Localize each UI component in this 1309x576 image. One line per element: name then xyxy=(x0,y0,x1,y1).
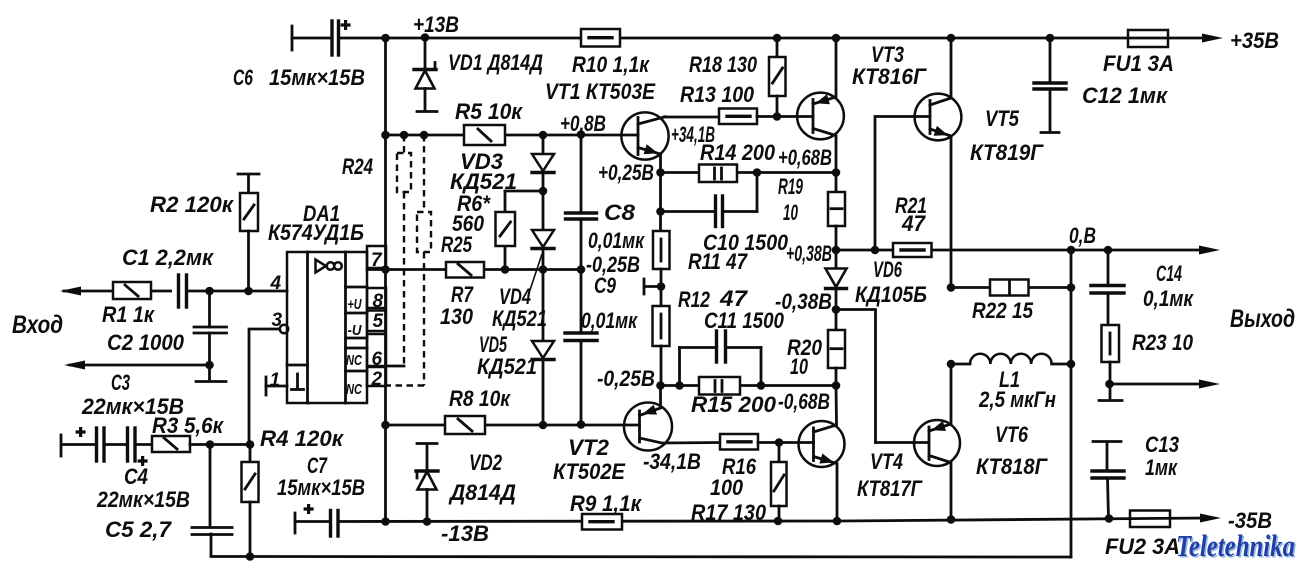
wire R8 row xyxy=(386,424,640,427)
svg-text:С14: С14 xyxy=(1156,261,1182,286)
node pin7 row x385 xyxy=(381,265,390,274)
svg-text:VD6: VD6 xyxy=(873,257,903,282)
resistor R18 xyxy=(769,38,786,117)
node -0.38V xyxy=(832,305,841,314)
node VT4 emitter rail xyxy=(833,517,842,526)
node R5 row C8 tap (+0.8V) xyxy=(577,130,586,139)
node C11 left xyxy=(675,381,684,390)
svg-text:-0,25В: -0,25В xyxy=(597,366,655,391)
svg-text:47: 47 xyxy=(901,211,927,236)
resistor R6 xyxy=(496,191,544,270)
node R20 bottom / VT4 collector xyxy=(832,381,841,390)
resistor R2 xyxy=(238,174,259,291)
resistor R5 xyxy=(464,125,505,145)
svg-text:С9: С9 xyxy=(594,273,617,298)
svg-text:VT1 КТ503Е: VT1 КТ503Е xyxy=(545,79,656,104)
svg-text:Д814Д: Д814Д xyxy=(448,480,516,505)
svg-text:10: 10 xyxy=(783,200,798,225)
node 0V row x1071 xyxy=(1067,246,1076,255)
transistor Q VT1 xyxy=(621,112,668,172)
svg-text:КД521: КД521 xyxy=(492,306,547,331)
node C6-rail junction xyxy=(381,34,390,43)
svg-text:R24: R24 xyxy=(342,154,373,179)
svg-text:С2 1000: С2 1000 xyxy=(107,330,185,355)
capacitor C8 xyxy=(566,213,597,219)
wire VD3-VD4-VD5 column xyxy=(542,135,545,425)
wire C8 to C9 xyxy=(580,219,583,333)
wire R16 to VT4 base xyxy=(758,441,814,444)
svg-text:FU1 3А: FU1 3А xyxy=(1103,51,1174,76)
capacitor C4 xyxy=(128,428,148,466)
svg-text:R25: R25 xyxy=(441,232,473,257)
capacitor C13 xyxy=(1092,442,1124,519)
svg-text:+0,38В: +0,38В xyxy=(786,241,832,266)
svg-text:22мк×15В: 22мк×15В xyxy=(96,487,190,512)
svg-text:+0,68В: +0,68В xyxy=(778,145,832,170)
svg-text:-34,1В: -34,1В xyxy=(643,449,701,474)
node R4 top xyxy=(246,440,255,449)
svg-text:R1 1к: R1 1к xyxy=(102,302,156,327)
svg-text:VT5: VT5 xyxy=(985,106,1020,131)
svg-text:R8 10к: R8 10к xyxy=(449,386,512,411)
wire R11 to junction xyxy=(660,269,663,306)
wire C7 lead xyxy=(295,520,330,523)
wire C3/C4/R3 row xyxy=(63,443,96,446)
svg-text:2: 2 xyxy=(371,369,383,390)
fuse FU2 xyxy=(1130,511,1170,528)
svg-text:КТ818Г: КТ818Г xyxy=(976,454,1048,479)
svg-text:15мк×15В: 15мк×15В xyxy=(269,65,365,90)
node pin7 row VD column xyxy=(539,265,548,274)
svg-text:+U: +U xyxy=(348,296,363,313)
svg-text:-0,38В: -0,38В xyxy=(775,289,832,314)
svg-text:VT6: VT6 xyxy=(995,422,1029,447)
svg-text:0,01мк: 0,01мк xyxy=(588,228,645,253)
svg-text:3: 3 xyxy=(272,310,283,331)
inductor L1 xyxy=(951,354,1071,364)
svg-text:+13В: +13В xyxy=(413,12,459,37)
diode VD4 label pointer xyxy=(528,254,542,296)
svg-text:-0,68В: -0,68В xyxy=(778,389,830,414)
resistor R19 xyxy=(828,173,845,251)
svg-text:С5 2,7: С5 2,7 xyxy=(105,517,173,542)
resistor R22 xyxy=(990,280,1029,296)
svg-text:К574УД1Б: К574УД1Б xyxy=(268,220,364,245)
wire output arrow top xyxy=(1199,246,1220,255)
diode VD4 xyxy=(532,230,554,249)
wire VT2 collector to R16 xyxy=(663,441,720,444)
capacitor C6 xyxy=(332,20,351,55)
svg-text:5: 5 xyxy=(373,311,384,332)
ground bar C2 bottom xyxy=(196,380,226,383)
node VT5 base at 0V row xyxy=(871,246,880,255)
op-amp DA1 pin1 ground symbol xyxy=(292,374,304,390)
node R5 row x385 xyxy=(381,131,390,140)
wire VT5 base xyxy=(875,117,930,251)
node C13 bottom rail xyxy=(1105,514,1114,523)
resistor R16 xyxy=(720,434,758,450)
diode VD6 xyxy=(826,250,847,310)
svg-text:С13: С13 xyxy=(1145,432,1179,457)
svg-text:0,1мк: 0,1мк xyxy=(1143,286,1195,311)
transistor Q VT5 xyxy=(915,38,962,288)
capacitor C6 terminal bar xyxy=(291,26,294,50)
resistor R23 xyxy=(1102,325,1120,398)
svg-text:15мк×15В: 15мк×15В xyxy=(277,475,365,500)
capacitor C14 xyxy=(1091,250,1124,325)
svg-text:0,01мк: 0,01мк xyxy=(581,308,638,333)
svg-text:-U: -U xyxy=(348,322,363,339)
resistor R11 xyxy=(653,231,670,269)
svg-text:FU2 3А: FU2 3А xyxy=(1105,534,1180,559)
svg-text:Вход: Вход xyxy=(12,311,63,339)
transistor Q VT6 xyxy=(914,364,960,520)
node R17 top xyxy=(775,438,784,447)
node R5 row VD3 tap xyxy=(539,131,548,140)
node VD2 bottom junction xyxy=(423,517,432,526)
resistor R15 xyxy=(699,377,740,395)
resistor R25 (dashed) xyxy=(386,135,431,386)
capacitor C3 xyxy=(76,427,104,461)
wire main +13V vertical column x385 xyxy=(384,38,387,522)
resistor R7 xyxy=(446,262,484,278)
svg-text:NC: NC xyxy=(346,352,363,369)
svg-text:R15 200: R15 200 xyxy=(691,392,777,417)
svg-text:R10 1,1к: R10 1,1к xyxy=(572,52,651,77)
svg-text:КД521: КД521 xyxy=(477,354,537,379)
wire R3 to R4 node xyxy=(190,443,250,446)
svg-text:Teletehnika: Teletehnika xyxy=(1176,528,1295,563)
capacitor C5 xyxy=(192,445,232,535)
node C2 row2 junction xyxy=(205,361,214,370)
svg-text:7: 7 xyxy=(371,250,383,271)
svg-text:КТ819Г: КТ819Г xyxy=(970,140,1044,165)
svg-text:С11 1500: С11 1500 xyxy=(704,308,785,333)
svg-text:130: 130 xyxy=(440,304,474,329)
wire R14 row xyxy=(661,171,837,174)
svg-text:0,В: 0,В xyxy=(1069,223,1096,248)
node VT6 collector rail xyxy=(947,515,956,524)
wire input row pin4 with arrow xyxy=(64,290,287,293)
node C11 right xyxy=(757,381,766,390)
node R4 bottom feedback xyxy=(246,552,255,561)
resistor R8 xyxy=(445,416,485,434)
op-amp U1 DA1 body xyxy=(287,252,367,403)
wire output right column x1071 xyxy=(1070,250,1073,557)
svg-text:6: 6 xyxy=(372,349,383,370)
svg-text:С8: С8 xyxy=(604,200,636,225)
transistor Q VT2 xyxy=(624,386,672,451)
node VD3-R6 junction xyxy=(539,187,548,196)
node R11-R12 midpoint xyxy=(657,282,666,291)
watermark Teletehnika xyxy=(1176,528,1297,565)
svg-text:КД105Б: КД105Б xyxy=(855,282,927,307)
svg-text:1мк: 1мк xyxy=(1145,455,1178,480)
svg-text:R9 1,1к: R9 1,1к xyxy=(570,491,643,516)
wire output arrow bottom xyxy=(1110,383,1206,386)
capacitor C7 xyxy=(304,504,338,536)
wire emitter column VT1 down xyxy=(659,173,662,232)
svg-text:4: 4 xyxy=(270,273,282,294)
node R14 right / C10 riser xyxy=(753,168,762,177)
wire C9 to R8 row xyxy=(580,341,583,426)
wire VT6 base xyxy=(876,441,930,444)
node C5 top xyxy=(206,440,215,449)
wire +35V top rail xyxy=(339,37,1210,40)
node R8 row VD column xyxy=(539,421,548,430)
svg-text:R17 130: R17 130 xyxy=(691,500,767,525)
svg-text:+35В: +35В xyxy=(1230,28,1279,53)
node C1-C2 junction xyxy=(205,287,214,296)
svg-text:+0,8В: +0,8В xyxy=(560,111,606,136)
node VT3 emitter rail junction xyxy=(832,34,841,43)
resistor R10 xyxy=(581,29,620,47)
svg-text:С12 1мк: С12 1мк xyxy=(1082,83,1169,108)
node -0.25V VT2 emitter xyxy=(656,381,665,390)
ground bar R23 bottom xyxy=(1099,399,1122,402)
wire +35V arrow xyxy=(1202,34,1223,43)
svg-text:100: 100 xyxy=(710,475,744,500)
svg-text:R11 47: R11 47 xyxy=(688,249,748,274)
svg-text:R23 10: R23 10 xyxy=(1132,330,1194,355)
svg-text:NC: NC xyxy=(346,381,363,398)
node output arrow 2 xyxy=(1105,380,1114,389)
svg-text:R2 120к: R2 120к xyxy=(150,192,235,217)
ground stub at R11-R12 midpoint xyxy=(644,279,661,294)
svg-text:КТ816Г: КТ816Г xyxy=(852,64,927,89)
svg-text:С3: С3 xyxy=(111,370,130,395)
node R17 bottom rail xyxy=(774,517,783,526)
node L1 right xyxy=(1067,360,1076,369)
pin number labels DA1 xyxy=(270,250,384,391)
node C7 column junction xyxy=(381,517,390,526)
resistor R21 xyxy=(893,243,932,257)
node pin7 row C8 column xyxy=(577,265,586,274)
resistor R20 xyxy=(828,310,845,386)
svg-text:R13 100: R13 100 xyxy=(680,82,755,107)
wire input row 2 with arrow xyxy=(70,364,210,367)
svg-text:С4: С4 xyxy=(124,464,148,489)
wire R22 row xyxy=(951,286,1071,289)
svg-text:2,5 мкГн: 2,5 мкГн xyxy=(978,387,1056,412)
node VT5 collector rail junction xyxy=(947,34,956,43)
svg-text:1: 1 xyxy=(270,370,281,391)
wire -35V bottom rail xyxy=(338,518,1209,522)
resistor R9 xyxy=(582,514,622,530)
capacitor C8 column wire xyxy=(580,135,583,214)
node R2 bottom junction xyxy=(244,287,253,296)
capacitor C1 xyxy=(172,275,188,307)
wire pin1 lead and terminal xyxy=(266,377,287,395)
wire pin3 column xyxy=(249,329,280,445)
transistor Q VT3 xyxy=(797,38,844,173)
svg-text:R22 15: R22 15 xyxy=(972,298,1034,323)
svg-text:Выход: Выход xyxy=(1230,305,1295,333)
svg-text:С6: С6 xyxy=(233,65,254,90)
op-amp DA1 pin stubs 8,5,6,2 xyxy=(367,246,386,386)
resistor R14 xyxy=(699,165,737,183)
svg-text:С1 2,2мк: С1 2,2мк xyxy=(122,245,215,270)
node L1 left xyxy=(947,360,956,369)
node C12 rail junction xyxy=(1046,34,1055,43)
wire pin6 stub lead xyxy=(386,365,404,368)
svg-text:КТ502Е: КТ502Е xyxy=(553,459,626,484)
node R22 right xyxy=(1067,283,1076,292)
wire feedback bottom line xyxy=(211,534,1071,557)
wire 0V row xyxy=(836,249,1205,252)
diode VD3 xyxy=(532,154,554,173)
node R5 row R25 tap xyxy=(420,131,429,140)
node 0V row x1108 xyxy=(1104,246,1113,255)
wire VT1 collector to R13 xyxy=(664,116,719,119)
wire C6 lead xyxy=(292,37,331,40)
diode VD5 xyxy=(532,341,554,360)
svg-text:R18 130: R18 130 xyxy=(689,52,758,77)
wire -35V arrow xyxy=(1200,514,1221,523)
resistor R3 xyxy=(152,436,190,452)
svg-text:22мк×15В: 22мк×15В xyxy=(81,394,184,419)
svg-text:КТ817Г: КТ817Г xyxy=(857,476,923,501)
node R18 bottom junction xyxy=(773,112,782,121)
transistor Q VT4 xyxy=(799,386,845,522)
svg-text:10: 10 xyxy=(790,354,809,379)
svg-text:R19: R19 xyxy=(778,174,803,199)
terminal bar C3 left xyxy=(60,435,63,456)
wire R13 to VT3 base xyxy=(757,115,813,118)
wire VT5 emitter column nodes xyxy=(947,283,956,292)
node C10 left tap xyxy=(656,207,665,216)
svg-text:VD1 Д814Д: VD1 Д814Д xyxy=(448,50,543,75)
svg-text:8: 8 xyxy=(373,291,384,312)
node +0.25V xyxy=(656,168,665,177)
resistor R24 (dashed) xyxy=(397,135,411,366)
capacitor C10 xyxy=(661,173,758,227)
wire R5 row xyxy=(386,134,639,137)
resistor R13 xyxy=(719,109,757,125)
svg-text:R14 200: R14 200 xyxy=(700,140,776,165)
diode VD1 zener xyxy=(414,38,437,112)
pin3 inversion bubble xyxy=(280,325,288,333)
resistor R4 xyxy=(242,445,259,557)
wire R7 / pin7 row xyxy=(367,268,581,271)
node R5 row R24 tap xyxy=(400,131,409,140)
node R8 row x385 xyxy=(381,421,390,430)
svg-text:VD2: VD2 xyxy=(469,450,503,475)
wire C4-R3 xyxy=(135,443,152,446)
DA1 internal pin function labels xyxy=(346,296,363,398)
svg-text:R4 120к: R4 120к xyxy=(260,426,345,451)
svg-text:+0,25В: +0,25В xyxy=(598,160,654,185)
wire C3-C4 xyxy=(104,443,127,446)
svg-text:R5 10к: R5 10к xyxy=(455,99,524,124)
capacitor C11 with bracket xyxy=(680,331,762,386)
node pin7 row R6 bottom xyxy=(501,265,510,274)
node VT3 collector / R19 top xyxy=(832,168,841,177)
fuse FU1 xyxy=(1128,30,1168,47)
wire -0.25V row xyxy=(661,384,837,387)
diode VD2 zener xyxy=(416,444,438,522)
resistor R17 xyxy=(771,443,787,522)
svg-text:VT2: VT2 xyxy=(568,435,610,460)
wire VD6 to VT6 base riser xyxy=(836,310,876,443)
node R8 row C9 column xyxy=(577,420,586,429)
resistor R1 xyxy=(113,282,151,299)
node VD1-rail junction xyxy=(421,33,430,42)
capacitor C7 terminal bar xyxy=(294,513,297,533)
capacitor C2 xyxy=(194,291,227,379)
capacitor C9 xyxy=(565,333,597,341)
op-amp DA1 triangle-infinity symbol xyxy=(316,260,342,273)
svg-text:VT4: VT4 xyxy=(870,449,903,474)
resistor R12 xyxy=(653,306,670,386)
node R18-rail junction xyxy=(773,34,782,43)
capacitor C12 xyxy=(1034,38,1066,133)
svg-text:-13В: -13В xyxy=(441,521,489,546)
node +0.38V xyxy=(832,246,841,255)
